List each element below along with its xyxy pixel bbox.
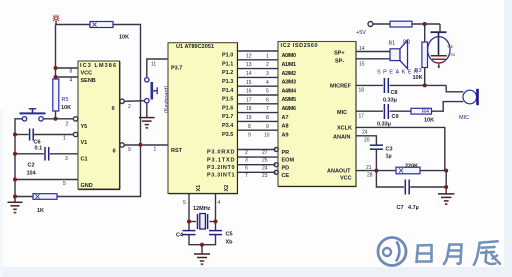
svg-text:GND: GND (81, 183, 93, 189)
svg-text:11: 11 (151, 62, 156, 68)
wire: R2 to RST vertical (113, 25, 141, 145)
wire down corner to mic plate (439, 24, 441, 32)
svg-text:1K: 1K (37, 208, 44, 214)
svg-text:IC3 LM386: IC3 LM386 (80, 63, 116, 69)
svg-text:14: 14 (246, 71, 252, 77)
node dot rail upper (444, 169, 448, 173)
node dot rail/GND (13, 178, 17, 182)
svg-text:Xb: Xb (226, 240, 234, 246)
svg-text:MICREF: MICREF (330, 84, 352, 90)
wire P3.4 to A8 (238, 120, 278, 122)
bubble pin CE (274, 170, 278, 174)
wire X1 down to C4 (188, 222, 190, 231)
node dot button/rail (54, 117, 58, 121)
IC3 chip body (78, 61, 120, 190)
svg-text:IC2 ISD2560: IC2 ISD2560 (281, 43, 318, 49)
svg-text:21: 21 (366, 165, 372, 171)
node dot crystal left (187, 220, 191, 224)
wire P3.5 to A9 (238, 129, 278, 131)
wire: power rail down (55, 25, 57, 119)
node dot pin8 (54, 66, 58, 70)
svg-text:6: 6 (245, 165, 248, 171)
ground right rail (438, 194, 454, 205)
svg-text:15: 15 (359, 62, 365, 68)
svg-text:5: 5 (183, 200, 186, 206)
microphone MIC (463, 89, 478, 105)
svg-text:V1: V1 (81, 140, 88, 146)
svg-text:+5V: +5V (356, 30, 366, 36)
svg-text:24: 24 (362, 130, 368, 136)
wire P1.6 to A6 (238, 103, 278, 105)
svg-text:8: 8 (248, 124, 251, 130)
resistor R4 (411, 108, 432, 115)
svg-text:10u: 10u (448, 52, 456, 57)
watermark logo ring (378, 238, 406, 266)
svg-text:X2: X2 (224, 185, 230, 192)
wire R6 to node A (412, 23, 440, 25)
svg-text:P3.2INT0: P3.2INT0 (207, 165, 235, 171)
wire P1.1 to A1 (238, 59, 278, 61)
svg-text:10: 10 (264, 133, 270, 139)
wire X2 down to C5 (215, 222, 217, 231)
svg-text:C1: C1 (81, 157, 88, 163)
svg-text:A3/M3: A3/M3 (282, 80, 297, 86)
svg-text:Cb: Cb (448, 44, 454, 49)
transistor/mic element plate (431, 31, 447, 33)
wire P1.5 to A5 (238, 94, 278, 96)
wire P3.2INT0 to PD (238, 164, 276, 166)
wire P1.0 to A0 (238, 50, 278, 52)
svg-text:8: 8 (70, 69, 73, 75)
svg-text:2: 2 (128, 104, 131, 110)
svg-text:8Ω: 8Ω (403, 40, 410, 46)
svg-text:23: 23 (262, 173, 268, 179)
wire button right to chip (43, 118, 73, 120)
svg-text:12: 12 (246, 53, 252, 59)
wire row V1 with cap C6 (15, 129, 73, 141)
svg-text:1: 1 (63, 136, 66, 142)
ground left red tick (14, 212, 17, 214)
wire R7 to right rail (420, 170, 446, 172)
svg-text:ANAIN: ANAIN (333, 135, 350, 141)
svg-text:14: 14 (359, 46, 365, 52)
svg-text:A5/M5: A5/M5 (282, 97, 297, 103)
svg-text:EOM: EOM (282, 158, 295, 164)
wire row C1 with cap C2 (15, 147, 78, 161)
svg-text:PR: PR (282, 150, 290, 156)
svg-text:R4: R4 (422, 109, 429, 115)
svg-text:20: 20 (364, 138, 370, 144)
ground below button S2 (139, 103, 155, 129)
svg-text:P1.1: P1.1 (222, 61, 233, 67)
svg-text:Y5: Y5 (81, 124, 88, 130)
resistor R3 vertical (422, 42, 428, 68)
svg-text:1: 1 (266, 53, 269, 59)
wire P3.1TXD to EOM (238, 156, 278, 158)
ground left rail (8, 202, 23, 209)
resistor R1 bottom-left (33, 194, 57, 200)
crystal Y1 (189, 214, 216, 230)
pushbutton S1 (left) (20, 109, 46, 121)
node dot gnd join (200, 243, 204, 247)
svg-text:15: 15 (246, 80, 252, 86)
svg-text:VCC: VCC (340, 176, 352, 182)
node dot rail/C2 (13, 152, 17, 156)
node dot RST (139, 143, 143, 147)
bubble pin PD (274, 163, 278, 167)
watermark char chen (474, 241, 500, 264)
wire caps join bar (189, 235, 216, 245)
bubble pin PR (274, 148, 278, 152)
svg-text:P1.3: P1.3 (222, 79, 233, 85)
wire IC3 upper bubble to button bottom (124, 100, 145, 103)
wire P1.3 to A3 (238, 76, 278, 78)
wire node to mic top (446, 85, 463, 91)
svg-text:3: 3 (245, 158, 248, 164)
svg-text:PD: PD (282, 165, 290, 171)
wire R3 to node (424, 68, 426, 86)
svg-text:10K: 10K (413, 75, 423, 81)
wire ANAIN down (356, 136, 376, 145)
svg-text:9: 9 (266, 124, 269, 130)
bubble pin Y5 (73, 117, 77, 121)
svg-text:P1.6: P1.6 (222, 105, 233, 111)
svg-text:A1/M1: A1/M1 (282, 62, 297, 68)
svg-text:P1.2: P1.2 (222, 70, 233, 76)
svg-text:VCC: VCC (81, 71, 93, 77)
wire bubble to R6 (373, 23, 390, 25)
svg-text:8: 8 (266, 115, 269, 121)
wire button left to rail (15, 119, 22, 202)
wire node A down to R3 (424, 24, 426, 42)
svg-text:A2/M2: A2/M2 (282, 71, 297, 77)
svg-text:P1.4: P1.4 (222, 88, 234, 94)
wire P1.4 to A4 (238, 85, 278, 87)
svg-text:4: 4 (266, 80, 269, 86)
svg-text:A0/M0: A0/M0 (282, 53, 297, 59)
svg-text:17: 17 (359, 114, 365, 120)
wire SP- to speaker (356, 58, 390, 60)
svg-text:10K: 10K (424, 118, 434, 124)
svg-text:18: 18 (246, 106, 252, 112)
svg-text:P3.7: P3.7 (171, 66, 182, 72)
svg-text:4: 4 (70, 78, 73, 84)
svg-text:P3.3INT1: P3.3INT1 (207, 173, 235, 179)
wire P3.3INT1 to CE (238, 171, 276, 173)
node dot crystal right (214, 220, 218, 224)
svg-text:U1 AT89C2051: U1 AT89C2051 (176, 44, 214, 50)
svg-text:A9: A9 (282, 132, 289, 138)
svg-text:0.33µ: 0.33µ (377, 122, 391, 128)
watermark char ri (417, 245, 432, 262)
bubble pin V1 (73, 132, 77, 136)
resistor R2 pull-up (top-left) (90, 22, 113, 28)
mic element circle (428, 32, 450, 68)
svg-text:A4/M4: A4/M4 (282, 88, 297, 94)
svg-text:P1.0: P1.0 (222, 53, 233, 59)
svg-text:0.1: 0.1 (35, 146, 43, 152)
X2 wire down (215, 194, 217, 222)
svg-text:3: 3 (266, 71, 269, 77)
wire P3.0RXD to PR (238, 149, 276, 151)
capacitor C5 (209, 231, 222, 235)
svg-text:10K: 10K (61, 105, 71, 111)
wire RST row (124, 144, 168, 146)
resistor R6 (top right) (390, 21, 412, 27)
wire MIC row with C9 (356, 104, 411, 119)
wire: power rail top corner (56, 21, 90, 25)
svg-text:2: 2 (266, 62, 269, 68)
svg-text:B1: B1 (389, 41, 396, 47)
svg-text:A7: A7 (282, 115, 289, 121)
svg-text:C3: C3 (386, 147, 393, 153)
svg-text:9: 9 (248, 133, 251, 139)
page tint left sliver (0, 110, 3, 277)
svg-text:2: 2 (245, 150, 248, 156)
svg-text:220K: 220K (405, 164, 418, 170)
svg-text:ANAOUT: ANAOUT (327, 169, 351, 175)
svg-text:16: 16 (246, 89, 252, 95)
svg-text:10K: 10K (119, 35, 129, 41)
svg-text:3: 3 (65, 156, 68, 162)
right rail (445, 171, 447, 194)
svg-text:19: 19 (246, 115, 252, 121)
svg-text:R5: R5 (62, 97, 69, 103)
page tint right edge (504, 0, 512, 277)
watermark char yue (444, 245, 462, 265)
svg-text:P3.1TXD: P3.1TXD (207, 157, 235, 163)
bubble out lower right (120, 143, 124, 147)
svg-text:XCLK: XCLK (337, 126, 352, 132)
svg-text:1: 1 (154, 147, 157, 153)
svg-text:A8: A8 (282, 124, 289, 130)
svg-text:7: 7 (245, 173, 248, 179)
svg-text:28: 28 (367, 173, 373, 179)
node dot rail/C6 (13, 133, 17, 137)
wire: pin8 stub (56, 67, 79, 69)
svg-text:9: 9 (128, 147, 131, 153)
svg-text:C5: C5 (226, 232, 233, 238)
pushbutton S2 (vertical) (145, 78, 158, 103)
svg-text:MIC: MIC (459, 115, 469, 121)
capacitor C4 (183, 231, 196, 235)
svg-text:4.7µ: 4.7µ (408, 205, 419, 211)
node dot pin4 (54, 75, 58, 79)
svg-text:4: 4 (218, 200, 221, 206)
node dot R3 bottom (423, 83, 427, 87)
wire SP+ to speaker (356, 51, 390, 53)
page tint bottom band (0, 267, 512, 277)
svg-text:5: 5 (266, 89, 269, 95)
wire node B down and right with C7 (376, 171, 446, 195)
svg-text:104: 104 (27, 171, 37, 177)
crystal circuit: X1 wire down (188, 194, 190, 222)
svg-text:P1.7: P1.7 (222, 114, 233, 120)
svg-text:RST: RST (171, 148, 183, 154)
svg-text:P3.4: P3.4 (222, 123, 234, 129)
power input bubble (368, 22, 373, 27)
wire ANAOUT row (356, 170, 396, 172)
svg-text:C4: C4 (176, 233, 184, 239)
wire XCLK row to right rail (356, 127, 445, 170)
svg-text:27: 27 (262, 150, 268, 156)
node dot B (374, 169, 378, 173)
resistor R7 220K (396, 167, 420, 174)
capacitor C3 (370, 145, 383, 149)
svg-text:2: 2 (66, 122, 69, 128)
svg-text:C2: C2 (28, 163, 35, 169)
wire rail to R1 (15, 196, 33, 198)
wire C3 to node B (375, 149, 377, 170)
svg-text:SENB: SENB (81, 78, 96, 84)
svg-text:C7: C7 (397, 205, 404, 211)
resistor R5 10K on rail (53, 79, 59, 111)
svg-text:P1.5: P1.5 (222, 97, 233, 103)
svg-text:1µ: 1µ (386, 154, 392, 160)
svg-text:24: 24 (262, 165, 268, 171)
wire: pin4 stub (56, 76, 79, 78)
svg-text:R3: R3 (415, 68, 422, 74)
wire row GND (15, 179, 78, 181)
speaker B1 (390, 40, 408, 68)
svg-text:SP+: SP+ (334, 51, 345, 57)
wire R1 to RST riser (57, 145, 141, 197)
IC2 chip body (278, 42, 356, 187)
wire MICREF row with C8 (356, 78, 446, 93)
node dot rail/R1 (13, 195, 17, 199)
bubble out upper right (120, 99, 124, 103)
svg-text:P3.5: P3.5 (222, 132, 233, 138)
svg-text:A6/M6: A6/M6 (282, 106, 297, 112)
svg-text:17: 17 (246, 97, 252, 103)
node dot A (423, 22, 427, 26)
svg-text:13: 13 (246, 62, 252, 68)
svg-text:MIC: MIC (337, 110, 347, 116)
ground crystal (194, 245, 210, 265)
svg-text:P3.0RXD: P3.0RXD (207, 150, 235, 156)
wire R4 to mic bottom (432, 102, 464, 112)
U1 chip body (168, 43, 238, 194)
power symbol VCC (red) (53, 14, 60, 22)
svg-text:CE: CE (282, 173, 290, 179)
svg-text:SP-: SP- (335, 59, 344, 65)
svg-text:X1: X1 (196, 185, 202, 192)
node dot rail lower (444, 185, 448, 189)
wire P1.2 to A2 (238, 68, 278, 70)
svg-text:C9: C9 (392, 114, 399, 120)
svg-text:18: 18 (359, 88, 365, 94)
svg-text:0.33µ: 0.33µ (383, 98, 397, 104)
svg-text:6: 6 (266, 97, 269, 103)
svg-text:25: 25 (262, 158, 268, 164)
wire P1.7 to A7 (238, 112, 278, 114)
svg-text:5: 5 (63, 181, 66, 187)
svg-text:C8: C8 (391, 90, 398, 96)
svg-text:7: 7 (266, 106, 269, 112)
wire P3.7 from button top (147, 59, 168, 77)
svg-text:12MHz: 12MHz (193, 206, 211, 212)
